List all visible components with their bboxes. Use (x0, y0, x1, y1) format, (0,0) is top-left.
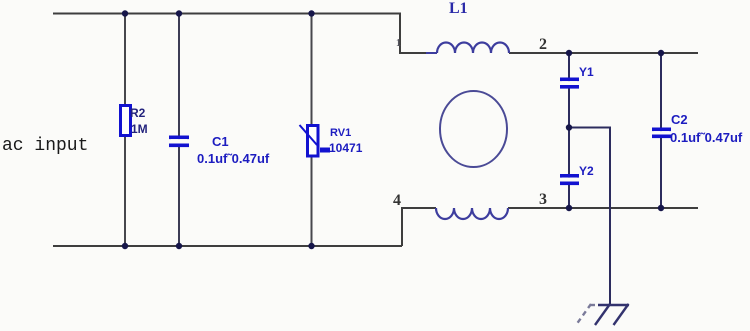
wire top-right rail (509, 52, 698, 54)
wire Y-branch vertical (568, 53, 570, 208)
svg-text:L1: L1 (449, 0, 468, 17)
junction top rail at RV1 (308, 10, 314, 16)
resistor R2 (121, 106, 131, 136)
wire C1 vertical (178, 14, 180, 247)
junction bottom rail at R2 (122, 243, 128, 249)
capacitor C2 (652, 128, 671, 139)
junction node 2 at C2 (658, 50, 664, 56)
inductor L1 upper winding (437, 43, 509, 53)
capacitor Y2 (560, 174, 579, 185)
wire mid-node link to ground (569, 128, 610, 306)
wire top-left rail (53, 13, 401, 15)
junction bottom rail at RV1 (308, 243, 314, 249)
wire upper winding leads (426, 52, 437, 54)
wire bottom-left rail (53, 245, 402, 247)
svg-text:0.1uf˜0.47uf: 0.1uf˜0.47uf (197, 151, 270, 166)
ground (576, 304, 629, 325)
wire step down at pin 1 (400, 14, 437, 54)
junction bottom rail at C1 (176, 243, 182, 249)
junction top rail at C1 (176, 10, 182, 16)
svg-text:Y2: Y2 (579, 164, 594, 178)
junction node 3 at C2 (658, 205, 664, 211)
junction top rail at R2 (122, 10, 128, 16)
svg-text:Y1: Y1 (579, 65, 594, 79)
svg-text:3: 3 (539, 191, 547, 208)
svg-text:RV1: RV1 (330, 127, 351, 139)
svg-text:R2: R2 (130, 106, 146, 120)
choke core circle (440, 91, 507, 167)
svg-text:C1: C1 (212, 134, 229, 149)
svg-text:C2: C2 (671, 112, 688, 127)
svg-text:0.1uf˜0.47uf: 0.1uf˜0.47uf (670, 130, 743, 145)
svg-text:ac input: ac input (2, 136, 88, 156)
wire step up at pin 4 (402, 208, 436, 246)
svg-text:2: 2 (539, 36, 547, 53)
svg-text:1M: 1M (131, 122, 148, 136)
wire bottom-right rail (508, 207, 698, 209)
junction node 2 at Y1 (566, 50, 572, 56)
wire C2 vertical (660, 53, 662, 208)
svg-text:10471: 10471 (329, 141, 363, 155)
wire R2 vertical (124, 14, 126, 247)
svg-text:1: 1 (396, 38, 401, 49)
varistor RV1 (300, 125, 331, 156)
junction Y1-Y2 midpoint (566, 124, 572, 130)
svg-text:4: 4 (393, 192, 401, 209)
wire RV1 vertical (311, 14, 313, 247)
junction node 3 at Y2 (566, 205, 572, 211)
capacitor Y1 (560, 78, 579, 89)
capacitor C1 (169, 136, 189, 148)
inductor L1 lower winding (436, 208, 508, 219)
